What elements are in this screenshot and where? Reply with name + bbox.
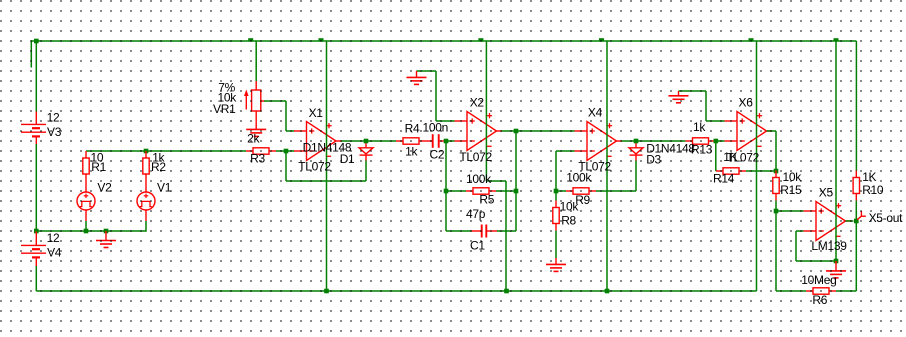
wire X5 supply bbox=[835, 41, 837, 261]
wire V4 to bottom bus bbox=[35, 266, 37, 291]
label D3 name bbox=[646, 152, 661, 166]
resistor R4 bbox=[396, 138, 426, 144]
node X5 ground junction bbox=[834, 259, 839, 264]
label R9 name bbox=[575, 193, 590, 207]
resistor R3 bbox=[246, 148, 276, 154]
wire C1 right leg bbox=[497, 191, 516, 231]
wire X2 supply jog bbox=[486, 181, 506, 291]
label V4 name bbox=[47, 246, 62, 260]
node X5 V+ bus tap bbox=[834, 38, 839, 41]
wire X5 gnd row bbox=[796, 260, 836, 262]
label C1 name bbox=[470, 239, 485, 253]
node V3 top junction bbox=[34, 39, 39, 44]
label R14 value bbox=[723, 150, 737, 164]
label R6 name bbox=[812, 293, 827, 307]
potentiometer VR1 bbox=[244, 81, 265, 129]
node R5 left bbox=[444, 189, 449, 194]
wire R10 to out node bbox=[855, 201, 857, 222]
ground X6 bbox=[669, 91, 689, 103]
wire X1 feedback across bbox=[286, 180, 366, 182]
node X6 out junction bbox=[774, 169, 779, 174]
wire R3 to node bbox=[276, 150, 286, 152]
node VR1 bus tap bbox=[248, 38, 253, 41]
wire R6 row left bbox=[776, 290, 806, 292]
wire C1 left leg bbox=[446, 191, 472, 231]
node R5 right bbox=[514, 189, 519, 194]
node X4 output bbox=[634, 139, 639, 144]
wire X4 out to R13 bbox=[622, 140, 686, 142]
wire input row bbox=[86, 150, 246, 152]
wire R14 to node bbox=[746, 170, 776, 172]
wire X4- from R9 node bbox=[556, 151, 575, 191]
label X5 model bbox=[811, 239, 847, 253]
wire X5+ lead bbox=[776, 210, 804, 212]
label R8 value bbox=[560, 200, 580, 214]
ground VR1 bbox=[246, 129, 266, 136]
wire R6 up leg bbox=[775, 211, 777, 291]
resistor R10 bbox=[853, 171, 859, 201]
op-amp X4 bbox=[575, 122, 623, 161]
op-amp X1 bbox=[294, 122, 342, 161]
node X1 supply bottom bbox=[324, 289, 329, 294]
node X6 V+ bus tap bbox=[749, 38, 754, 41]
capacitor C2 bbox=[426, 134, 445, 148]
label X2 name bbox=[470, 96, 485, 110]
label X4 name bbox=[588, 106, 603, 120]
node X2 output bbox=[514, 129, 519, 134]
wire X5 out bbox=[846, 220, 854, 222]
label X2 model bbox=[459, 150, 492, 164]
label R10 name bbox=[862, 183, 884, 197]
label V3 value bbox=[47, 111, 60, 125]
node X5 output bbox=[854, 219, 859, 224]
label R14 name bbox=[713, 172, 735, 186]
wire stub top-left bbox=[30, 40, 32, 67]
ground X2 bbox=[407, 71, 427, 84]
wire X6 gnd jog bbox=[679, 91, 725, 121]
label VR1 value bbox=[218, 91, 238, 105]
wire X1 feedback down bbox=[285, 151, 287, 181]
wire V2 to row bbox=[85, 221, 87, 231]
ground R8 bbox=[546, 258, 566, 271]
op-amp X6 bbox=[725, 112, 773, 151]
capacitor C1 bbox=[472, 225, 498, 238]
label C1 value bbox=[466, 207, 486, 221]
label R6 value bbox=[801, 273, 836, 287]
wire R9 to D3 leg bbox=[596, 190, 636, 192]
label X6 name bbox=[739, 96, 754, 110]
node battery mid junction bbox=[34, 229, 39, 234]
label R1 name bbox=[91, 160, 106, 174]
resistor R8 bbox=[553, 191, 559, 231]
wire X5- loop bbox=[796, 231, 804, 261]
label D3 model bbox=[646, 141, 695, 155]
label R3 name bbox=[250, 152, 265, 166]
resistor R15 bbox=[773, 171, 779, 201]
wire R9 left lead bbox=[556, 190, 566, 192]
label VR1 percent bbox=[218, 80, 235, 94]
wire out node down bbox=[855, 221, 857, 291]
node X1 output bbox=[364, 139, 369, 144]
wire R5 left lead bbox=[446, 190, 466, 192]
wire R5 to X2 out bbox=[515, 131, 517, 191]
label R2 name bbox=[151, 160, 166, 174]
resistor R6 bbox=[806, 288, 836, 294]
wire X1 feedback up bbox=[365, 160, 367, 181]
wire sources row bbox=[36, 230, 146, 232]
label X1 model bbox=[298, 160, 331, 174]
diode D1 bbox=[359, 142, 373, 161]
node ground-left tap bbox=[104, 229, 109, 234]
label R5 name bbox=[479, 193, 494, 207]
wire R13 node to X6- bbox=[716, 140, 725, 142]
wire R14 down leg bbox=[715, 141, 717, 171]
label R4 value bbox=[405, 145, 418, 159]
resistor R13 bbox=[686, 138, 716, 144]
node X1 inv input bbox=[284, 149, 289, 154]
node X1 V+ bus tap bbox=[319, 38, 324, 41]
label R13 name bbox=[691, 142, 713, 156]
wire VR1 wiper to X1+ bbox=[264, 101, 295, 131]
label R5 value bbox=[466, 172, 492, 186]
node X4 V+ bus tap bbox=[599, 38, 604, 41]
label V1 name bbox=[157, 180, 172, 194]
label R9 value bbox=[566, 171, 592, 185]
battery V4 bbox=[21, 231, 46, 266]
wire X2 supply upper bbox=[485, 41, 487, 181]
label VR1 name bbox=[213, 102, 236, 116]
node X2 V+ bus tap bbox=[478, 38, 483, 41]
wire R3 node to X1- bbox=[286, 150, 295, 152]
wire X6 out corner bbox=[767, 131, 777, 171]
label X5 name bbox=[819, 185, 834, 199]
ground left bbox=[96, 231, 116, 248]
label D1 model bbox=[303, 141, 352, 155]
node X2 supply bottom bbox=[504, 289, 509, 294]
label X4 model bbox=[578, 160, 611, 174]
label R10 value bbox=[862, 170, 876, 184]
terminal X5-out pin bbox=[857, 211, 866, 220]
wire X2- down to R5 bbox=[445, 141, 447, 191]
resistor R14 bbox=[716, 168, 746, 174]
wire R10 top from bus bbox=[855, 41, 857, 171]
wire VR1 from bus bbox=[255, 41, 257, 81]
resistor R5 bbox=[466, 188, 496, 194]
label V4 value bbox=[47, 231, 60, 245]
wire X1 out to R4 bbox=[341, 140, 396, 142]
label X6 model bbox=[727, 150, 760, 164]
node R2 top junction bbox=[144, 149, 149, 154]
wire X6 supply bbox=[756, 41, 758, 291]
wire R6 row right bbox=[836, 290, 856, 292]
label X1 name bbox=[309, 106, 324, 120]
resistor R2 bbox=[143, 151, 149, 181]
label R15 name bbox=[780, 183, 802, 197]
node X2 inv input bbox=[444, 139, 449, 144]
label D1 name bbox=[340, 152, 355, 166]
resistor R9 bbox=[566, 188, 596, 194]
label R15 value bbox=[783, 170, 803, 184]
label R1 value bbox=[91, 151, 104, 165]
wire V3 top lead bbox=[35, 41, 37, 112]
wire R15 to X5 node bbox=[775, 201, 777, 212]
wire X2 out to X4+ bbox=[502, 130, 575, 132]
wire X2 gnd jog bbox=[417, 71, 455, 121]
node R13-R14 junction bbox=[714, 139, 719, 144]
node R9 left bbox=[554, 189, 559, 194]
wire C2 node to X2- bbox=[446, 140, 455, 142]
node X5 plus input bbox=[774, 209, 779, 214]
label C2 value bbox=[423, 121, 449, 135]
battery V3 bbox=[21, 112, 46, 145]
op-amp X2 bbox=[455, 112, 503, 151]
wire D3 down leg bbox=[635, 160, 637, 191]
wire V3 to node bbox=[35, 144, 37, 231]
label R3 value bbox=[247, 132, 260, 146]
diode D3 bbox=[629, 142, 643, 161]
ground X5 bbox=[826, 261, 846, 278]
wire X1 supply bbox=[326, 41, 328, 291]
label V3 name bbox=[47, 125, 62, 139]
label node X5-out bbox=[869, 211, 904, 225]
source V1 bbox=[137, 181, 155, 221]
op-amp X5 (LM139) bbox=[804, 202, 852, 241]
resistor R1 bbox=[83, 151, 89, 181]
source V2 bbox=[77, 181, 95, 221]
node X4 supply bottom bbox=[605, 289, 610, 294]
label V2 name bbox=[97, 180, 112, 194]
wire top V+ bus bbox=[31, 40, 856, 42]
label C2 name bbox=[430, 148, 445, 162]
label R4 name bbox=[405, 122, 420, 136]
node V2 bottom bbox=[84, 229, 89, 234]
label R8 name bbox=[561, 214, 576, 228]
wire V1 to row bbox=[145, 221, 147, 232]
wire X4 supply bbox=[606, 41, 608, 291]
wire R5 right lead bbox=[496, 190, 516, 192]
label R2 value bbox=[152, 151, 165, 165]
wire R8 to ground bbox=[555, 231, 557, 259]
label R13 value bbox=[693, 120, 706, 134]
wire bottom V- bus bbox=[36, 290, 756, 292]
